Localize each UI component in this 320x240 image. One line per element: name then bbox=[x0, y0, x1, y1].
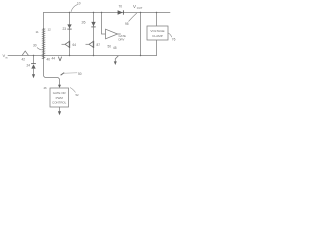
svg-text:GATE OR: GATE OR bbox=[53, 91, 66, 95]
svg-text:87: 87 bbox=[97, 43, 101, 47]
svg-text:44: 44 bbox=[52, 57, 56, 61]
wire op-amp output stub bbox=[118, 33, 121, 35]
svg-text:10: 10 bbox=[77, 2, 81, 6]
svg-text:50: 50 bbox=[108, 45, 112, 49]
wire branch2 vertical bbox=[93, 13, 95, 41]
op-amp 50 (gate drive buffer) bbox=[106, 29, 118, 39]
wire clamp top lead bbox=[156, 13, 158, 27]
svg-text:64: 64 bbox=[73, 43, 77, 47]
wire op-amp input bbox=[102, 13, 106, 35]
diode 26 (branch2, cathode down) bbox=[91, 22, 95, 27]
svg-text:24: 24 bbox=[27, 64, 31, 68]
diode 70 (series, top rail) bbox=[118, 10, 124, 14]
terminal Vin bbox=[3, 53, 8, 59]
svg-text:26: 26 bbox=[82, 21, 86, 25]
svg-text:DRV: DRV bbox=[119, 37, 125, 41]
svg-text:PWM: PWM bbox=[56, 96, 64, 100]
diode 24 (freewheel, cathode up) bbox=[31, 56, 36, 75]
control box arrow-in bbox=[58, 85, 61, 88]
svg-text:V: V bbox=[133, 4, 136, 9]
svg-text:OUT: OUT bbox=[137, 6, 143, 10]
label 52 with leader (control box right) bbox=[70, 88, 76, 93]
wire coil bottom lead to control box bbox=[44, 58, 60, 86]
svg-text:95: 95 bbox=[125, 22, 129, 26]
svg-text:45: 45 bbox=[113, 46, 117, 50]
wire clamp bottom lead bbox=[156, 40, 158, 56]
node (junction dots) bbox=[33, 12, 157, 56]
fuse 42 (hump on input line) bbox=[22, 51, 29, 56]
transistor 64 (branch1) bbox=[62, 41, 70, 48]
box gate/PWM control bbox=[50, 88, 69, 107]
ground (arrowhead at node 44 on rail) bbox=[58, 57, 61, 61]
diode 23 (branch1, cathode down) bbox=[67, 24, 71, 29]
svg-text:50: 50 bbox=[78, 72, 82, 76]
node Vout label bbox=[133, 4, 143, 10]
transistor 87 (branch2) bbox=[86, 41, 94, 48]
svg-text:CLAMP: CLAMP bbox=[152, 34, 163, 38]
wire mid rail bbox=[8, 55, 157, 57]
svg-text:30: 30 bbox=[33, 44, 37, 48]
wire top rail bbox=[44, 12, 171, 14]
svg-text:40: 40 bbox=[47, 58, 51, 62]
svg-text:CONTROL: CONTROL bbox=[52, 101, 67, 105]
svg-text:70: 70 bbox=[119, 5, 123, 9]
svg-text:76: 76 bbox=[172, 38, 176, 42]
ground (arrow under control box) bbox=[58, 111, 61, 115]
ground (bent arrow 45 on mid rail) bbox=[114, 56, 119, 65]
wire coil top lead bbox=[43, 13, 45, 30]
svg-text:12: 12 bbox=[48, 27, 52, 31]
svg-text:VOLTAGE: VOLTAGE bbox=[150, 29, 164, 33]
voltage clamp box 76 bbox=[147, 26, 168, 40]
wire branch1 vertical bbox=[69, 13, 71, 41]
wire control box ground lead bbox=[59, 107, 61, 112]
wire right vertical bbox=[140, 13, 142, 56]
svg-text:46: 46 bbox=[44, 86, 48, 90]
coil 30 (hatched element) bbox=[42, 28, 46, 59]
svg-text:23: 23 bbox=[63, 27, 67, 31]
ground (arrow under diode 24) bbox=[32, 74, 35, 78]
svg-text:52: 52 bbox=[76, 93, 80, 97]
svg-text:11: 11 bbox=[36, 30, 39, 34]
svg-text:42: 42 bbox=[22, 58, 26, 62]
